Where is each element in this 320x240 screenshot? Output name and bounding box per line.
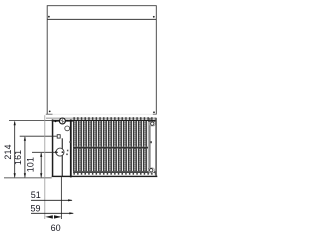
svg-text:60: 60 [51,223,61,233]
vent grille bottom band [73,171,155,173]
right flange bottom tab hole [150,169,153,172]
svg-text:161: 161 [13,150,23,165]
panel square hole [57,135,60,138]
panel knob spokes [60,118,65,124]
dimension line 101 [40,152,42,177]
extension line 161 [20,135,57,137]
right flange top tab [150,122,156,126]
right flange bottom tab [148,168,154,173]
extension line top (214) [9,120,55,122]
vent grille mid divider [73,147,148,149]
screw dot bottom-left [49,111,51,113]
right flange inner line [149,118,151,173]
top view outline [47,6,156,115]
screw dot top-left [48,16,50,18]
extension line 101 [32,151,58,153]
svg-text:51: 51 [31,190,41,200]
svg-text:59: 59 [31,204,41,214]
extension line vertical A [60,177,62,219]
vent grille field upper [73,121,148,147]
panel connector center dot [62,151,64,153]
svg-text:101: 101 [26,157,36,172]
extension line bottom baseline [4,177,52,179]
dimension line 59 [31,212,74,214]
dimension line 214 [14,121,16,178]
right flange small nub [150,141,152,143]
dimension 60 arrows [45,215,61,218]
top view front lip line [47,18,156,20]
panel connector circle [56,148,64,156]
top view bottom edge stub right [153,113,157,115]
front view body right edge [155,118,156,177]
front view body left edge [52,119,54,177]
front view body bottom edge [52,176,158,177]
panel divider seam [62,138,63,176]
panel tiny mark lower [66,154,68,156]
top view bottom edge stub left [46,113,53,115]
svg-text:214: 214 [3,144,13,159]
panel LED ring [65,126,70,131]
panel top screw dot left [55,121,57,123]
panel tiny mark upper [69,141,71,143]
right flange top tab hole [151,122,154,125]
panel knob [59,118,65,124]
front view thin top line [46,117,156,119]
vent grille bottom nubs [73,173,155,175]
panel connector center blob [55,151,58,154]
dimension line 51 [31,199,73,201]
top view bottom edge (faint) [47,113,156,115]
extension line vertical grey [44,115,46,219]
panel tiny mark [67,150,69,152]
panel right edge [70,119,72,177]
screw dot top-right [153,16,155,18]
panel top screw dot mid [67,120,69,122]
vent grille field lower [73,149,148,172]
front view top louver nubs [73,117,156,120]
panel top screw dot right [70,120,72,122]
dimension line 161 [24,136,26,178]
screw dot bottom-right [153,111,155,113]
front view body top edge [52,120,156,122]
